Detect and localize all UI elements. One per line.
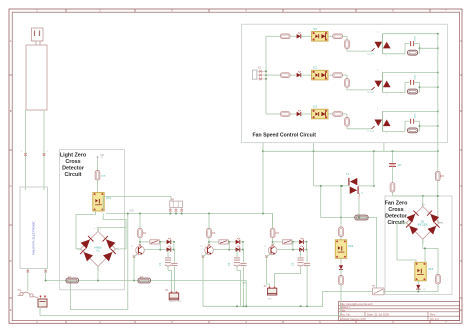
- svg-text:Light Zero: Light Zero: [60, 153, 87, 159]
- trimmer P3: [283, 240, 292, 244]
- capacitor C2a: [227, 258, 240, 266]
- capacitor C7: [389, 151, 402, 167]
- wire col341 upper: [340, 185, 342, 219]
- wire trimmer net: [321, 217, 377, 219]
- svg-text:100n: 100n: [415, 74, 417, 80]
- svg-text:N$2: N$2: [100, 155, 105, 157]
- svg-text:-: -: [100, 270, 101, 273]
- wire second cap down: [174, 267, 176, 292]
- svg-text:A: A: [460, 39, 462, 43]
- title block: [339, 302, 460, 321]
- svg-text:Detector: Detector: [385, 214, 408, 220]
- diode D3b: [299, 246, 303, 252]
- wire node Q col: [229, 242, 244, 251]
- wire second cap down: [243, 267, 245, 307]
- wire fan bus vertical: [265, 36, 267, 114]
- wire stage riser: [272, 214, 274, 229]
- svg-text:OK2: OK2: [348, 244, 354, 248]
- wire second cap down: [306, 267, 308, 307]
- wire triac stem: [382, 111, 384, 131]
- connector X1: [38, 295, 47, 307]
- optocoupler OK3: [415, 262, 434, 281]
- svg-text:Sh: 1/1: Sh: 1/1: [430, 317, 439, 321]
- diode D2b: [236, 246, 240, 252]
- resistor R1a: [138, 228, 147, 237]
- wire long middle net: [106, 213, 273, 229]
- device box DIM1: [20, 187, 48, 269]
- svg-text:TIC206: TIC206: [367, 53, 375, 55]
- section box fan zero: [385, 196, 452, 295]
- transistor T3: [264, 244, 277, 258]
- wire MT2 out: [383, 72, 439, 74]
- svg-text:TIC206: TIC206: [367, 92, 375, 94]
- label cap plus: [241, 264, 243, 267]
- diode D9: [416, 281, 426, 292]
- wire node Q top: [171, 241, 175, 243]
- wire jog rail from riser: [70, 214, 127, 310]
- wire emitter: [203, 254, 206, 306]
- wire bridge bottom loop: [423, 239, 438, 262]
- transistor T1: [131, 244, 144, 258]
- svg-text:EAGLE Version 4.09: EAGLE Version 4.09: [340, 317, 366, 321]
- resistor R13: [280, 112, 290, 117]
- switch S1: [18, 289, 38, 298]
- optocoupler OK1: [93, 193, 112, 212]
- optocoupler OC1: [312, 27, 328, 41]
- diode D2a: [236, 238, 240, 244]
- wire right col to resistor: [437, 248, 439, 274]
- optocoupler OK2: [335, 240, 353, 258]
- wire pot to node: [228, 241, 235, 243]
- net label n1: [130, 211, 135, 213]
- capacitor C11: [411, 35, 417, 46]
- potentiometer R15: [372, 286, 384, 295]
- resistor R3: [95, 171, 106, 181]
- connector X2: [165, 289, 182, 303]
- bridge rectifier B2: [402, 202, 443, 243]
- wire stage riser: [208, 214, 210, 229]
- wire node Q col: [293, 242, 308, 251]
- wire top feed: [393, 195, 439, 206]
- svg-text:G: G: [361, 193, 363, 195]
- wire stage riser: [139, 214, 141, 229]
- wire opto to pot net: [103, 197, 171, 212]
- triac Q1: [367, 31, 391, 57]
- wire gate: [347, 48, 375, 51]
- wire collector: [208, 238, 210, 246]
- resistor R32: [345, 79, 350, 88]
- resistor R12: [339, 227, 344, 237]
- label cap plus: [172, 264, 174, 267]
- net label n2: [100, 155, 105, 157]
- capacitor C13: [411, 113, 417, 124]
- wire triac out up: [373, 151, 375, 186]
- wire snubber left rail: [405, 44, 409, 54]
- wire device left pin down: [27, 269, 30, 292]
- svg-text:PHILIPS PL ELECTRONIC: PHILIPS PL ELECTRONIC: [32, 221, 36, 255]
- svg-text:E: E: [460, 308, 462, 312]
- wire bridge left to opto: [397, 223, 416, 262]
- svg-text:D: D: [10, 259, 12, 263]
- svg-text:100n: 100n: [415, 113, 417, 119]
- wire pot to node: [159, 241, 166, 243]
- wire MT1 to snubber: [383, 131, 406, 133]
- wire device right pin down: [44, 269, 47, 281]
- wire second cap col: [306, 250, 309, 263]
- resistor R23: [333, 112, 343, 117]
- wire pot row: [273, 241, 283, 243]
- wire emitter: [267, 254, 270, 288]
- capacitor C1a: [158, 258, 171, 266]
- wire R3 to opto: [97, 180, 99, 193]
- wire snubber right rail: [414, 82, 421, 92]
- wire gate: [347, 87, 375, 90]
- resistor R33: [345, 118, 350, 127]
- wire cap col: [167, 250, 169, 257]
- svg-text:IC3: IC3: [313, 105, 318, 109]
- svg-text:C: C: [460, 184, 462, 188]
- resistor R43: [408, 128, 418, 133]
- wire second cap col: [242, 250, 245, 263]
- resistor R2a: [207, 228, 216, 237]
- wire opto left loop to bridge: [76, 211, 96, 249]
- wire bridge minus to neutral: [98, 266, 101, 280]
- label light zero cross detector circuit: [60, 153, 87, 179]
- svg-text:Cross: Cross: [388, 207, 403, 213]
- wire MT2 out: [383, 110, 439, 112]
- connector plug P1: [32, 28, 44, 45]
- wire lamp left pin: [21, 110, 27, 190]
- wire gate drop: [343, 36, 348, 40]
- diode D8: [339, 258, 343, 269]
- capacitor C3b: [298, 263, 304, 266]
- svg-text:80C1500: 80C1500: [418, 223, 429, 226]
- capacitor C1b: [165, 263, 171, 266]
- wire base row: [213, 249, 235, 251]
- svg-text:C1: C1: [158, 262, 162, 266]
- bridge rectifier B1: [76, 227, 119, 271]
- wire neutral y280: [45, 280, 248, 308]
- svg-text:-: -: [424, 241, 425, 244]
- trimmer P2: [219, 240, 228, 244]
- capacitor C2b: [234, 263, 240, 266]
- svg-text:Cross: Cross: [65, 159, 80, 165]
- capacitor C2c: [240, 263, 246, 265]
- wire opto right loop to bridge: [103, 214, 126, 249]
- wire: [328, 35, 333, 37]
- diode D1b: [167, 246, 171, 252]
- transistor T2: [200, 244, 213, 258]
- wire row left: [266, 113, 280, 115]
- wire snubber right rail: [414, 44, 421, 54]
- net label n6: [242, 283, 247, 285]
- wire MT1 to snubber: [383, 92, 406, 94]
- wire bottom rail C: [40, 315, 341, 317]
- trimmer P1: [150, 240, 159, 244]
- svg-text:C2: C2: [227, 262, 231, 266]
- svg-text:4u7: 4u7: [398, 164, 403, 167]
- wire snubber out: [420, 125, 439, 127]
- wire cap col: [236, 250, 238, 257]
- wire row left: [266, 74, 280, 76]
- wire snubber right rail: [414, 121, 421, 131]
- wire bus to bridge right: [437, 151, 439, 223]
- resistor R2: [138, 276, 151, 283]
- svg-text:TIC206: TIC206: [367, 131, 375, 133]
- label fan zero cross detector circuit: [385, 201, 408, 227]
- svg-text:MAINS 230V: MAINS 230V: [169, 300, 182, 303]
- wire snubber out: [420, 47, 439, 49]
- wire wiper riser: [376, 218, 378, 289]
- wire cap down: [237, 267, 241, 307]
- svg-text:Detector: Detector: [62, 166, 85, 172]
- wire bottom net fan zero: [383, 291, 438, 293]
- svg-text:FAN: FAN: [268, 298, 273, 301]
- resistor R10: [390, 166, 395, 196]
- diode D3a: [299, 238, 303, 244]
- svg-text:Date: 21 Jul 2003: Date: 21 Jul 2003: [367, 313, 389, 317]
- label fan speed control circuit: [253, 133, 317, 139]
- capacitor C12: [411, 74, 417, 85]
- wire branch x320: [320, 185, 322, 218]
- wire bridge plus stub: [93, 227, 126, 231]
- wire node Q col: [160, 242, 175, 251]
- wire node Q top: [303, 241, 307, 243]
- resistor R31: [345, 40, 350, 49]
- diode LED1: [297, 32, 312, 38]
- resistor R17: [436, 171, 445, 180]
- svg-text:IC1: IC1: [313, 27, 318, 31]
- wire snubber left rail: [405, 82, 409, 92]
- resistor R3a: [270, 228, 279, 237]
- triac Q3: [367, 109, 391, 135]
- wire X1 to rail: [39, 306, 41, 315]
- wire gate drop: [343, 114, 348, 118]
- svg-text:IC2: IC2: [313, 66, 318, 70]
- wire to opto OK2: [340, 237, 342, 240]
- wire snubber out: [420, 86, 439, 88]
- svg-text:100n: 100n: [415, 35, 417, 41]
- capacitor C1c: [171, 263, 177, 265]
- trimmer R11: [355, 215, 368, 220]
- svg-text:Circuit: Circuit: [64, 172, 81, 178]
- resistor R13: [339, 269, 344, 285]
- svg-text:Fan Zero: Fan Zero: [385, 201, 408, 207]
- wire gate squiggle: [357, 191, 364, 218]
- triac Q2: [367, 70, 391, 96]
- resistor R41: [408, 50, 418, 55]
- diode LED2: [297, 71, 312, 77]
- wire pot row: [140, 241, 150, 243]
- section box light zero: [60, 150, 125, 290]
- diode D1a: [167, 238, 171, 244]
- wire base row: [277, 249, 299, 251]
- connector X3: [252, 68, 266, 81]
- wire: [290, 35, 296, 37]
- svg-text:E: E: [10, 308, 12, 312]
- wire MT1 to snubber: [383, 53, 406, 55]
- svg-text:C3: C3: [291, 262, 295, 266]
- wire: [290, 74, 296, 76]
- wire triac stem: [382, 73, 384, 93]
- capacitor C3c: [304, 263, 310, 265]
- label cap plus: [304, 264, 306, 267]
- svg-text:B: B: [460, 109, 462, 113]
- wire snubber left rail: [405, 121, 409, 131]
- resistor R22: [333, 73, 343, 78]
- capacitor C3a: [291, 258, 304, 266]
- wire node Q top: [240, 241, 244, 243]
- svg-text:Fan Speed Control Circuit: Fan Speed Control Circuit: [253, 133, 317, 139]
- wire right bus: [437, 34, 439, 153]
- wire col341 bottom: [340, 285, 342, 316]
- svg-text:C: C: [10, 184, 12, 188]
- lamp body LA1: [26, 45, 47, 110]
- wire cap down: [275, 267, 301, 288]
- optocoupler OC3: [312, 105, 328, 119]
- wire base row: [144, 249, 166, 251]
- wire fan feed horizontal: [262, 143, 438, 214]
- wire pot to node: [292, 241, 299, 243]
- diode LED3: [297, 110, 312, 116]
- potentiometer R4: [169, 199, 183, 213]
- resistor R11: [280, 34, 290, 39]
- wire MT2 out: [383, 33, 439, 35]
- wire emitter: [134, 254, 137, 281]
- wire bottom rail B: [203, 292, 373, 308]
- wire gate: [347, 126, 375, 129]
- wire collector: [272, 238, 274, 246]
- wire lamp right pin: [43, 110, 49, 190]
- wire: [328, 113, 333, 115]
- resistor R14: [436, 275, 441, 292]
- svg-text:A: A: [10, 39, 12, 43]
- svg-text:N$5: N$5: [130, 211, 135, 213]
- wire stub above R3: [97, 156, 104, 170]
- wire: [290, 113, 296, 115]
- wire drop x313: [313, 143, 315, 186]
- connector X4: [264, 285, 277, 301]
- svg-text:B: B: [10, 109, 12, 113]
- wire pot row: [209, 241, 219, 243]
- wire gate drop: [343, 75, 348, 79]
- resistor R42: [408, 89, 418, 94]
- svg-text:OK3: OK3: [428, 267, 434, 271]
- wire col341 top: [340, 218, 342, 228]
- section box fan speed: [242, 24, 448, 143]
- wire cap down: [168, 267, 172, 292]
- wire drop x383: [383, 143, 385, 152]
- wire cap col: [300, 250, 302, 257]
- wire row left: [266, 35, 280, 37]
- resistor R12: [280, 73, 290, 78]
- triac T2 on fan line: [314, 173, 375, 194]
- wire: [328, 74, 333, 76]
- svg-text:D: D: [460, 259, 462, 263]
- wire triac stem: [382, 34, 384, 54]
- wire collector: [139, 238, 141, 246]
- wire second cap col: [173, 250, 176, 263]
- resistor R21: [333, 34, 343, 39]
- optocoupler OC2: [312, 66, 328, 80]
- resistor R1: [66, 276, 79, 283]
